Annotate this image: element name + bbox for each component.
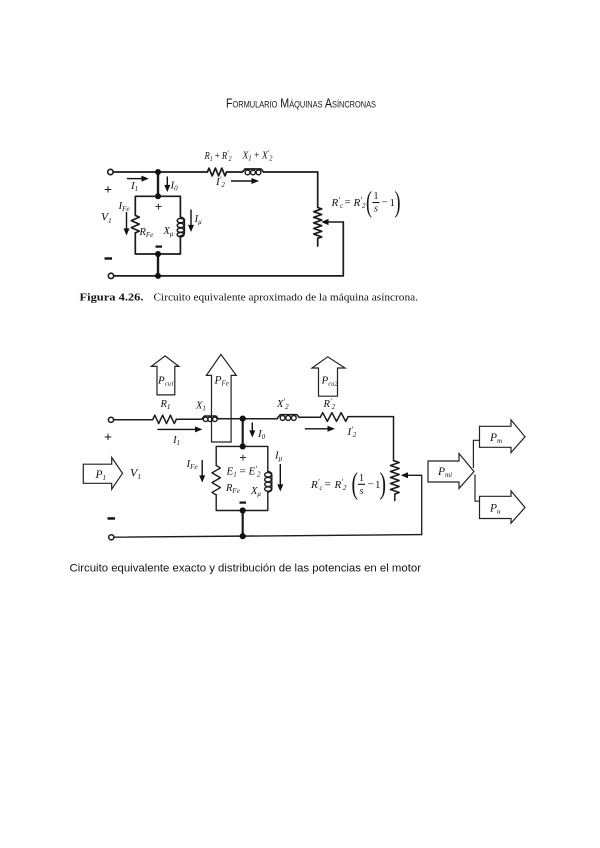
wire shunt box left <box>135 196 158 215</box>
current arrow IFe <box>186 458 206 483</box>
svg-text:Iμ: Iμ <box>194 213 203 226</box>
node shunt top <box>155 193 161 199</box>
svg-text:I1: I1 <box>130 180 138 193</box>
current arrow I0 <box>164 177 178 193</box>
inductor Xu <box>180 217 184 236</box>
wiper arrow <box>327 221 343 223</box>
wire right drop <box>342 222 344 276</box>
wire top left <box>113 171 207 173</box>
wire <box>227 171 243 173</box>
label minus shunt <box>240 502 247 504</box>
svg-text:s: s <box>360 486 364 497</box>
node junction top <box>155 169 161 175</box>
connector Pmi to Pm <box>473 440 479 468</box>
svg-text:R′2: R′2 <box>334 478 347 493</box>
node shunt bottom <box>240 507 246 513</box>
wire shunt vertical top <box>242 419 244 447</box>
inductor Xu loops <box>177 218 184 236</box>
svg-text:Circuito equivalente exacto y: Circuito equivalente exacto y distribuci… <box>70 563 422 575</box>
svg-text:(: ( <box>352 466 359 501</box>
node shunt top <box>240 443 246 449</box>
inductor X2' loops <box>280 416 296 421</box>
svg-text:I′2: I′2 <box>347 425 357 439</box>
inductor X1 <box>202 416 219 419</box>
svg-text:R1 + R′2: R1 + R′2 <box>204 149 232 163</box>
svg-text:I′2: I′2 <box>215 175 225 189</box>
wire box left bottom <box>216 495 243 511</box>
resistor RFe <box>131 215 139 233</box>
terminal top left <box>108 417 113 422</box>
svg-text:R′2: R′2 <box>323 397 336 411</box>
svg-text:−: − <box>368 479 374 491</box>
current arrow I2' <box>215 175 259 189</box>
node bottom wire <box>155 273 161 279</box>
current arrow I1 <box>157 426 202 447</box>
connector Pmi to Pu <box>475 475 480 502</box>
wire bottom <box>114 535 422 538</box>
wire <box>176 418 202 420</box>
wire bottom <box>114 275 343 277</box>
power arrow PFe <box>206 354 236 442</box>
wire top right <box>264 171 318 173</box>
node bottom wire <box>240 533 246 539</box>
wire right vertical <box>317 172 319 208</box>
wire shunt box left <box>216 446 243 465</box>
wire junction vertical bottom <box>157 254 159 276</box>
terminal bottom left <box>109 535 114 540</box>
svg-text:RFe: RFe <box>225 483 240 495</box>
svg-text:+: + <box>155 199 162 214</box>
inductor Xu loops <box>265 473 272 492</box>
svg-text:I1: I1 <box>172 434 180 447</box>
svg-text:X1: X1 <box>195 401 206 413</box>
svg-text:): ) <box>380 466 387 501</box>
svg-text:RFe: RFe <box>139 227 154 239</box>
current arrow I0 <box>249 423 265 442</box>
current arrow IFe <box>118 200 130 236</box>
svg-text:−: − <box>382 197 388 209</box>
rheostat R'c <box>390 461 399 501</box>
current arrow I2' <box>305 425 357 439</box>
svg-text:+: + <box>239 450 246 465</box>
wire top right <box>348 416 394 418</box>
resistor R1+R2' <box>207 168 226 176</box>
wire shunt box right <box>158 196 180 217</box>
svg-text:R′c: R′c <box>331 196 344 211</box>
svg-text:I0: I0 <box>170 180 179 193</box>
svg-text:Circuito equivalente aproximad: Circuito equivalente aproximado de la má… <box>154 292 419 304</box>
resistor R1 <box>153 415 176 423</box>
wire shunt box right <box>243 446 268 471</box>
svg-text:R1: R1 <box>160 399 171 411</box>
terminal top left <box>108 169 113 174</box>
node shunt bottom <box>155 251 161 257</box>
svg-text:V1: V1 <box>130 466 141 482</box>
label minus shunt <box>156 246 163 248</box>
power arrow Pm <box>480 420 526 453</box>
power arrow P1 <box>83 458 122 490</box>
resistor R2' <box>320 413 348 422</box>
wiper wire <box>407 475 422 534</box>
inductor X1+X2' <box>242 169 263 172</box>
inductor X2' <box>278 415 300 418</box>
svg-text:E1 = E′2: E1 = E′2 <box>226 465 261 479</box>
svg-text:=: = <box>325 479 331 491</box>
svg-text:X1 + X′2: X1 + X′2 <box>242 149 273 163</box>
wiper arrowhead <box>401 472 408 478</box>
wire top left <box>114 418 153 420</box>
power arrow Pcu1 <box>151 356 179 395</box>
svg-text:(: ( <box>366 186 372 219</box>
wire box right bottom <box>243 492 268 510</box>
wire junction vertical top <box>157 172 159 196</box>
svg-text:Figura 4.26.: Figura 4.26. <box>80 292 144 304</box>
wire to node <box>219 418 278 420</box>
inductor Xu <box>268 471 272 492</box>
current arrow I1 <box>127 176 149 193</box>
svg-text:Xμ: Xμ <box>163 226 174 238</box>
label minus left <box>105 257 113 259</box>
svg-text:Iμ: Iμ <box>274 450 283 463</box>
power arrow Pmi <box>428 454 474 489</box>
svg-text:V1: V1 <box>101 212 112 226</box>
svg-text:I0: I0 <box>257 428 266 441</box>
resistor RFe <box>212 466 220 495</box>
label formula R'c 2 <box>310 466 386 501</box>
inductor X1 loops <box>203 417 217 422</box>
svg-text:): ) <box>395 186 401 219</box>
wiper arrowhead <box>321 219 328 225</box>
label minus left <box>108 517 116 520</box>
wire right vertical <box>394 417 395 461</box>
label formula R'c <box>331 186 401 219</box>
svg-text:IFe: IFe <box>118 200 130 213</box>
current arrow Iu <box>188 210 202 233</box>
node main wire <box>240 416 246 422</box>
current arrow Iu <box>274 450 283 492</box>
svg-text:+: + <box>104 431 112 446</box>
svg-text:R′c: R′c <box>310 478 323 493</box>
terminal bottom left <box>108 273 113 278</box>
svg-text:IFe: IFe <box>186 458 198 471</box>
svg-text:1: 1 <box>359 473 364 484</box>
rheostat R'c <box>314 208 322 247</box>
inductor X1+X2' loops <box>245 170 261 175</box>
svg-text:s: s <box>374 204 378 215</box>
wire <box>299 416 320 418</box>
svg-text:=: = <box>345 197 351 209</box>
svg-text:R′2: R′2 <box>353 196 366 211</box>
wire box right bottom <box>158 236 180 254</box>
svg-text:+: + <box>104 183 112 198</box>
svg-text:1: 1 <box>374 191 379 202</box>
svg-text:X′2: X′2 <box>276 397 289 411</box>
wire box left bottom <box>135 233 158 254</box>
svg-text:Xμ: Xμ <box>250 486 261 498</box>
power arrow Pu <box>480 491 526 523</box>
svg-text:Formulario Máquinas Asíncronas: Formulario Máquinas Asíncronas <box>226 96 376 111</box>
power arrow Pcu2 <box>312 357 345 396</box>
wire shunt vertical bottom <box>242 511 244 537</box>
